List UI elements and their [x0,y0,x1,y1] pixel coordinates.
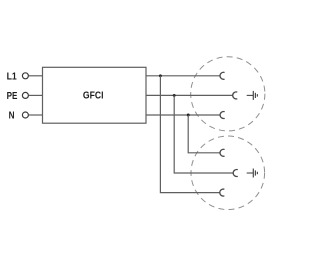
junction dot N branch [187,114,190,117]
contact arc X1 bottom (N) [220,112,225,119]
wire N branch to outlet X2 [188,115,220,153]
terminal circle L1 [22,73,28,79]
contact arc X1 middle (PE) [233,92,238,99]
wire N output to outlet X1 [146,114,220,116]
outlet socket X2 (dashed circle) [191,136,265,210]
junction dot PE branch [173,94,176,97]
wire PE branch to outlet X2 [174,95,233,173]
wire L1 input [29,75,43,77]
contact arc X2 middle (PE) [233,169,238,176]
wire PE input [29,94,43,96]
terminal circle N [22,112,28,118]
junction dot L1 branch [159,74,162,77]
ground symbol X2 [247,169,258,178]
wire L1 output to outlet X1 [146,75,220,77]
ground symbol X1 [247,91,258,100]
outlet socket X1 (dashed circle) [191,57,265,131]
wire L1 branch to outlet X2 [160,76,220,193]
contact arc X1 top (L1) [220,72,225,79]
svg-text:GFCI: GFCI [83,91,104,102]
GFCI box U1 [43,67,147,123]
svg-text:N: N [9,111,15,122]
contact arc X2 top (N) [220,149,225,156]
svg-text:PE: PE [7,91,18,102]
wire PE output to outlet X1 [146,94,233,96]
svg-text:L1: L1 [7,72,18,83]
wire N input [29,114,43,116]
terminal circle PE [22,92,28,98]
contact arc X2 bottom (L1) [220,189,225,196]
